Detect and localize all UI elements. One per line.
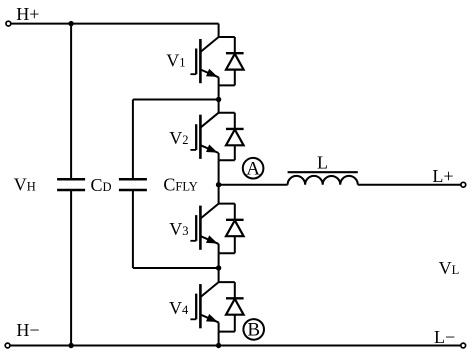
svg-text:B: B	[247, 320, 260, 341]
node A	[243, 158, 264, 180]
wire V3 collector stub	[218, 185, 220, 204]
svg-text:L−: L−	[434, 327, 455, 347]
inductor L	[288, 172, 358, 185]
wire CD bus lower	[70, 190, 72, 346]
svg-text:H+: H+	[16, 4, 39, 24]
wire V1 emitter stub	[218, 85, 220, 99]
wire V4 emitter stub	[218, 332, 220, 346]
svg-text:H−: H−	[16, 320, 39, 340]
svg-text:CFLY: CFLY	[163, 174, 197, 194]
svg-text:A: A	[246, 159, 260, 180]
wire CFLY bottom connection	[133, 190, 219, 268]
svg-text:V4: V4	[169, 298, 189, 318]
svg-text:V3: V3	[169, 219, 188, 239]
wire V3 emitter stub	[218, 253, 220, 268]
svg-text:L: L	[317, 152, 328, 172]
svg-text:CD: CD	[91, 175, 112, 195]
wire inductor to L+	[358, 184, 461, 186]
node B	[243, 319, 264, 341]
svg-text:V2: V2	[169, 128, 188, 148]
diode of V1 (antiparallel)	[219, 37, 244, 85]
wire V2 emitter stub	[218, 160, 220, 185]
transistor V1	[190, 37, 218, 85]
junction V3/V4	[216, 265, 221, 270]
svg-text:VL: VL	[439, 258, 460, 278]
svg-text:VH: VH	[14, 175, 36, 195]
wire V1 collector stub	[218, 24, 220, 37]
transistor V2	[190, 113, 218, 161]
wire CFLY top connection	[133, 100, 219, 180]
wire node A to inductor	[219, 184, 288, 186]
wire bottom rail	[10, 345, 461, 347]
diode of V4 (antiparallel)	[219, 282, 244, 332]
transistor V4	[190, 282, 218, 332]
transistor V3	[190, 204, 218, 254]
terminal L-	[461, 343, 466, 348]
wire top rail	[11, 23, 219, 25]
terminal H+	[6, 21, 11, 26]
junction top rail / CD bus	[68, 21, 73, 26]
diode of V2 (antiparallel)	[219, 113, 244, 161]
terminal H-	[5, 343, 10, 348]
terminal L+	[461, 182, 466, 187]
wire V2 collector stub	[218, 100, 220, 113]
svg-text:L+: L+	[432, 166, 453, 186]
wire V4 collector stub	[218, 268, 220, 282]
capacitor CD	[57, 179, 85, 190]
junction bottom rail / CD bus	[68, 343, 73, 348]
capacitor CFLY	[119, 179, 147, 190]
junction V1/V2	[216, 97, 221, 102]
svg-text:V1: V1	[166, 51, 185, 71]
junction V2/V3 (node A)	[216, 182, 221, 187]
junction bottom rail / V4 emitter	[216, 343, 221, 348]
wire CD bus upper	[70, 24, 72, 180]
diode of V3 (antiparallel)	[219, 204, 244, 254]
